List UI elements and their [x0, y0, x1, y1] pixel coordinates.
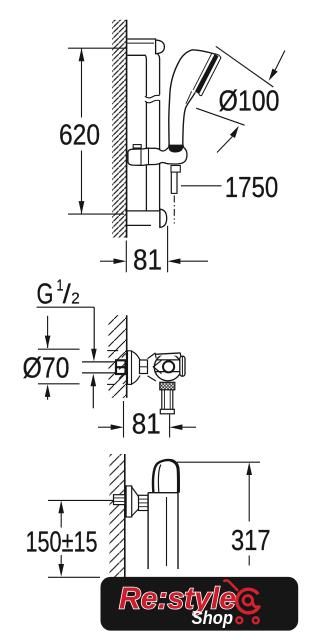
- svg-text:2: 2: [71, 290, 80, 307]
- svg-text:G: G: [37, 279, 54, 311]
- svg-text:Shop: Shop: [192, 607, 234, 628]
- svg-text:150±15: 150±15: [26, 526, 98, 558]
- svg-text:620: 620: [59, 120, 100, 152]
- svg-text:317: 317: [231, 525, 271, 557]
- svg-text:/: /: [63, 279, 72, 309]
- svg-text:1750: 1750: [225, 172, 278, 204]
- svg-text:81: 81: [132, 409, 161, 441]
- svg-text:81: 81: [133, 245, 162, 277]
- svg-text:Ø70: Ø70: [23, 353, 70, 385]
- svg-text:Ø100: Ø100: [219, 85, 280, 117]
